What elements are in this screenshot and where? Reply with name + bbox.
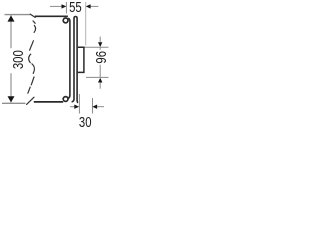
dimension line 30: [70, 105, 104, 109]
extension line 30 left: [78, 94, 80, 114]
extension line 96 top: [85, 46, 109, 48]
profile top flange: [35, 15, 68, 17]
profile bottom hem ring: [63, 97, 68, 102]
dimension line 96: [98, 37, 102, 89]
extension line top-left (300 top): [5, 14, 31, 16]
svg-text:55: 55: [69, 0, 82, 15]
extension line 55 right: [85, 2, 87, 45]
svg-text:96: 96: [93, 51, 110, 64]
dimension line 55: [50, 4, 98, 8]
profile bottom flange: [34, 101, 63, 103]
profile top hem ring: [63, 18, 68, 23]
profile seam fold: [72, 17, 79, 103]
svg-text:30: 30: [79, 113, 92, 128]
extension line 30 right: [92, 98, 94, 114]
dimension line 300: [8, 15, 15, 102]
profile hem tail down: [68, 18, 70, 98]
profile clip box: [78, 47, 84, 72]
extension line bottom-left (300 bottom): [2, 102, 26, 104]
extension line 55 left: [65, 2, 67, 14]
break line squiggle: [27, 14, 36, 104]
extension line 96 bottom: [86, 76, 109, 78]
svg-text:300: 300: [9, 50, 26, 69]
